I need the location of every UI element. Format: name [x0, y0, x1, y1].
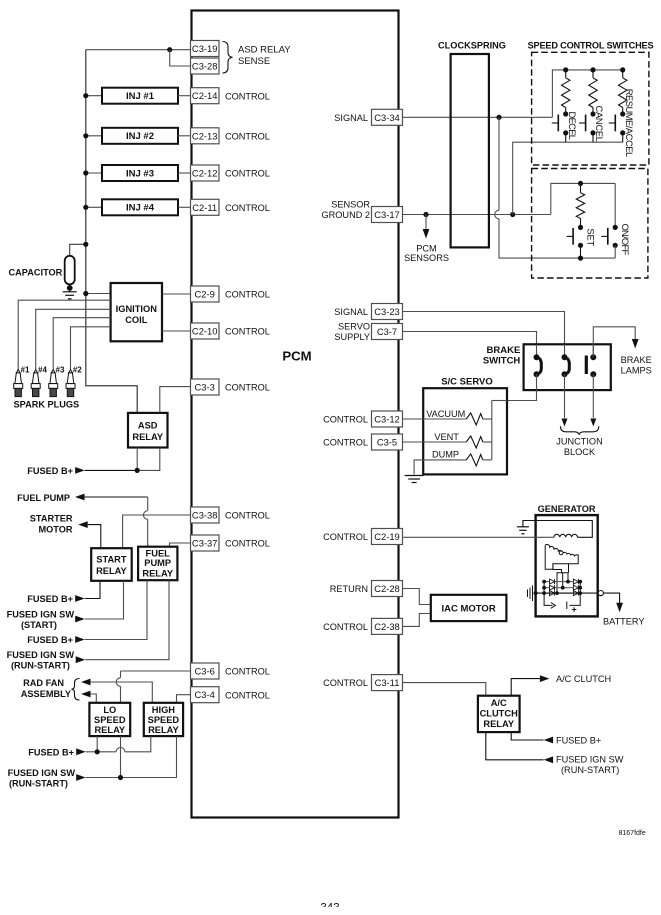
generator G1: [536, 515, 598, 616]
svg-text:FUSED B+: FUSED B+: [28, 747, 74, 757]
arrow: battery: [616, 603, 623, 613]
arrow: starter motor output: [78, 521, 88, 528]
field coil: [554, 534, 578, 537]
resistor CANCEL: [592, 70, 594, 78]
wire: C3-12 to vacuum valve: [403, 418, 467, 420]
pin C2-13: [191, 128, 220, 144]
svg-text:RELAY: RELAY: [483, 719, 514, 729]
svg-text:LO: LO: [103, 705, 116, 715]
arrow: fused B+ input: [75, 467, 85, 474]
lo speed relay K4: [89, 703, 130, 736]
arrow: fused ign sw a/c: [544, 756, 554, 763]
wire: to C3-28: [170, 50, 191, 66]
resistor DECEL: [565, 70, 567, 78]
svg-text:C3-12: C3-12: [374, 414, 400, 425]
brace: ASD relay sense: [223, 42, 233, 74]
svg-text:CONTROL: CONTROL: [323, 415, 368, 425]
wire+arrow: to PCM sensors: [425, 215, 427, 238]
pin C2-12: [191, 165, 220, 181]
switch CANCEL: [590, 111, 595, 116]
wire: contact3 bottom to junction block: [592, 374, 594, 418]
svg-text:C2-11: C2-11: [192, 202, 217, 213]
node: set top: [578, 181, 583, 186]
pin C2-9: [191, 286, 220, 302]
node: set bottom junction: [578, 256, 583, 261]
pin C3-23: [372, 304, 403, 320]
pin C3-4: [191, 687, 220, 703]
injector INJ #1: [102, 88, 178, 104]
wire: bus to capacitor: [70, 244, 86, 256]
node: bus junction INJ #1: [83, 93, 88, 98]
pin C2-28: [372, 581, 403, 597]
svg-text:FUSED IGN SW: FUSED IGN SW: [7, 609, 75, 619]
wire: contact2 to junction block: [564, 374, 566, 418]
wire: C3-38 to start relay: [123, 515, 191, 548]
svg-text:#3: #3: [56, 366, 65, 375]
battery terminal: [598, 591, 603, 596]
svg-text:FUSED IGN SW: FUSED IGN SW: [8, 768, 76, 778]
svg-text:RELAY: RELAY: [94, 725, 125, 735]
svg-text:GENERATOR: GENERATOR: [538, 504, 596, 514]
brace: junction block: [560, 426, 598, 435]
wire: bus to INJ #2: [86, 135, 102, 137]
node: bus junction INJ #2: [83, 133, 88, 138]
node: C3-28 tap junction: [167, 47, 172, 52]
arrow: brake lamps: [632, 339, 639, 349]
wire: fuel pump relay to fuel pump (hops C3-38 wire): [85, 496, 148, 498]
pin C3-34: [372, 109, 403, 125]
svg-text:C3-23: C3-23: [374, 306, 400, 317]
svg-text:SPEED: SPEED: [94, 715, 126, 725]
switch RESUME/ACCEL: [620, 111, 625, 116]
svg-text:BATTERY: BATTERY: [603, 617, 645, 627]
svg-text:C3-38: C3-38: [192, 510, 218, 521]
pin C2-11: [191, 199, 220, 215]
svg-text:S/C SERVO: S/C SERVO: [441, 376, 493, 387]
switch SET: [578, 225, 583, 230]
brake switch S1: [524, 344, 611, 390]
wire: coil to C2-10: [162, 330, 191, 332]
a/c clutch relay K6: [478, 696, 520, 732]
node: coil supply junction: [83, 291, 88, 296]
arrow: fused ign sw (run-start): [76, 656, 86, 663]
pin C3-5: [372, 434, 403, 450]
svg-text:CONTROL: CONTROL: [323, 438, 368, 448]
svg-text:LAMPS: LAMPS: [621, 365, 652, 375]
wire: C2-28 to IAC motor: [403, 589, 431, 605]
arrow: a/c clutch output: [540, 675, 550, 682]
svg-text:SWITCH: SWITCH: [483, 355, 521, 366]
svg-text:CONTROL: CONTROL: [225, 131, 270, 141]
svg-text:BLOCK: BLOCK: [564, 447, 596, 457]
node: fused B+ junction: [135, 468, 140, 473]
wire: to battery: [603, 593, 619, 603]
arrow: rad fan lo: [81, 691, 91, 698]
wire: ASD relay contact feed: [137, 448, 160, 471]
node: capacitor ground junction: [67, 285, 73, 291]
svg-text:HIGH: HIGH: [152, 705, 176, 715]
svg-text:C3-37: C3-37: [192, 538, 218, 549]
svg-text:8167fdfe: 8167fdfe: [619, 830, 646, 837]
svg-text:INJ #4: INJ #4: [126, 203, 155, 214]
svg-text:CONTROL: CONTROL: [323, 622, 368, 632]
svg-text:CONTROL: CONTROL: [323, 532, 368, 542]
wire: C3-34 signal through clockspring: [403, 116, 553, 118]
svg-text:SIGNAL: SIGNAL: [334, 113, 368, 123]
node: DECEL top: [563, 67, 568, 72]
capacitor C1: [65, 256, 75, 285]
svg-text:RAD FAN: RAD FAN: [23, 678, 64, 688]
svg-text:C2-12: C2-12: [192, 168, 218, 179]
svg-text:C3-3: C3-3: [195, 382, 215, 393]
wire: CANCEL to bottom bus: [592, 133, 594, 142]
pin C2-19: [372, 529, 403, 545]
generator internal bottom marks: [544, 593, 555, 608]
node: rad fan B+ junction: [95, 749, 100, 754]
svg-text:ASSEMBLY: ASSEMBLY: [21, 689, 71, 699]
wire: contact1 to s/c servo supply bus: [508, 374, 537, 400]
svg-text:CONTROL: CONTROL: [225, 690, 270, 700]
svg-text:(RUN-START): (RUN-START): [9, 778, 68, 788]
wire: fuel pump relay ign sw: [85, 580, 169, 660]
start relay K2: [91, 548, 132, 581]
wire: ASD relay to C3-3: [160, 387, 191, 413]
svg-text:RESUME/ACCEL: RESUME/ACCEL: [624, 89, 635, 158]
wire: INJ #3 to pin: [178, 172, 191, 174]
arrow: rad fan hi: [81, 679, 91, 686]
arrow: fused B+ rad fan: [76, 748, 86, 755]
svg-text:DECEL: DECEL: [567, 112, 578, 141]
svg-text:CANCEL: CANCEL: [594, 106, 605, 143]
dump valve: [414, 459, 466, 461]
ignition coil U1: [111, 283, 162, 341]
wire: field coil return loop to ground: [523, 521, 592, 538]
svg-text:FUSED B+: FUSED B+: [27, 466, 73, 476]
svg-text:A/C: A/C: [491, 698, 507, 708]
wire: C2-38 to IAC motor: [403, 614, 431, 627]
svg-text:RETURN: RETURN: [330, 584, 368, 594]
high speed relay K5: [144, 703, 183, 736]
svg-text:CONTROL: CONTROL: [225, 327, 270, 337]
svg-text:CONTROL: CONTROL: [225, 290, 270, 300]
arrow: fused ign sw (start): [75, 616, 85, 623]
pin C3-19: [191, 41, 220, 57]
svg-text:A/C CLUTCH: A/C CLUTCH: [556, 674, 611, 684]
svg-text:INJ #1: INJ #1: [126, 91, 155, 102]
svg-text:C3-4: C3-4: [195, 689, 215, 700]
svg-text:FUSED IGN SW: FUSED IGN SW: [556, 754, 624, 764]
pin C3-17: [372, 207, 403, 223]
svg-text:ON/OFF: ON/OFF: [620, 224, 631, 256]
wire: C3-19 sense wire: [86, 49, 191, 51]
svg-text:#2: #2: [73, 366, 82, 375]
svg-text:SPEED CONTROL SWITCHES: SPEED CONTROL SWITCHES: [528, 40, 654, 50]
svg-text:(RUN-START): (RUN-START): [11, 661, 70, 671]
svg-text:CLOCKSPRING: CLOCKSPRING: [438, 41, 506, 51]
svg-text:BRAKE: BRAKE: [621, 355, 652, 365]
servo internal supply bus: [492, 400, 507, 402]
svg-text:CONTROL: CONTROL: [225, 539, 270, 549]
svg-text:ASD RELAY: ASD RELAY: [238, 44, 291, 55]
svg-text:C2-19: C2-19: [374, 531, 400, 542]
svg-text:DUMP: DUMP: [432, 450, 459, 460]
fuel pump relay K3: [138, 547, 177, 581]
svg-text:INJ #3: INJ #3: [126, 168, 154, 179]
svg-text:(START): (START): [21, 620, 57, 630]
brake switch contact 3: [592, 344, 594, 357]
svg-text:PCM: PCM: [282, 349, 311, 364]
svg-text:FUEL PUMP: FUEL PUMP: [17, 493, 70, 503]
node: rad fan ign junction: [118, 775, 123, 780]
svg-text:CONTROL: CONTROL: [225, 511, 270, 521]
svg-text:SET: SET: [586, 228, 597, 246]
pin C3-37: [191, 535, 220, 551]
arrow: fuel pump output: [75, 494, 85, 501]
pin C2-38: [372, 618, 403, 634]
wire: start relay ign sw: [85, 581, 124, 619]
svg-text:#4: #4: [38, 366, 47, 375]
svg-text:FUSED IGN SW: FUSED IGN SW: [7, 650, 75, 660]
pin C2-14: [191, 88, 220, 104]
wire: INJ #4 to pin: [178, 206, 191, 208]
PCM module box: [192, 11, 399, 818]
node: bus junction INJ #4: [83, 205, 88, 210]
svg-text:C2-10: C2-10: [192, 326, 218, 337]
svg-text:SENSE: SENSE: [238, 56, 270, 67]
svg-text:C3-19: C3-19: [192, 43, 218, 54]
wire: coil to spark plug #3: [53, 318, 110, 370]
svg-text:FUSED B+: FUSED B+: [27, 635, 73, 645]
svg-text:SIGNAL: SIGNAL: [334, 307, 368, 317]
ASD relay K1: [128, 413, 168, 448]
wire: RESUME/ACCEL to bottom bus: [622, 133, 624, 142]
wire: on/off to bottom bus: [614, 245, 616, 258]
pin C3-28: [191, 58, 220, 74]
svg-text:CONTROL: CONTROL: [225, 169, 270, 179]
svg-text:BRAKE: BRAKE: [487, 345, 521, 356]
brake switch contact 2: [564, 344, 566, 357]
svg-text:RELAY: RELAY: [142, 569, 173, 579]
spark plug #2: [66, 370, 75, 397]
wire: start relay fused B+: [85, 581, 100, 599]
arrow: fused B+ fp relay: [75, 636, 85, 643]
svg-text:C2-14: C2-14: [192, 90, 218, 101]
wire: C3-5 to vent valve: [403, 441, 467, 443]
ground: s/c servo: [405, 476, 424, 483]
injector INJ #3: [102, 165, 178, 181]
svg-text:+: +: [572, 605, 577, 615]
IAC motor M1: [431, 595, 507, 621]
svg-text:SERVO: SERVO: [338, 322, 370, 332]
brake switch contact 1: [536, 344, 538, 357]
wire: coil to spark plug #2: [71, 327, 111, 370]
svg-text:SPEED: SPEED: [148, 715, 180, 725]
wire: coil to spark plug #1: [18, 300, 110, 370]
wire: C3-23 to brake switch contact 2: [403, 312, 565, 345]
wire: C3-11 to a/c clutch relay: [403, 683, 486, 696]
svg-text:START: START: [96, 555, 127, 565]
wire: high speed relay to rad fan: [91, 682, 153, 703]
switch ON/OFF: [614, 183, 616, 227]
svg-text:FUSED B+: FUSED B+: [556, 736, 601, 746]
svg-text:CLUTCH: CLUTCH: [480, 709, 518, 719]
svg-text:#1: #1: [21, 366, 30, 375]
generator output row: [536, 592, 598, 594]
wire: coil to spark plug #4: [36, 309, 111, 370]
dashed box: upper speed control switches: [532, 52, 649, 165]
spark plug #4: [31, 370, 40, 397]
pin C2-10: [191, 323, 220, 339]
svg-text:(RUN-START): (RUN-START): [561, 765, 619, 775]
pin C3-7: [372, 324, 403, 340]
wire: bus to ignition coil supply: [86, 293, 111, 295]
svg-text:C3-7: C3-7: [377, 326, 397, 337]
stator windings: [545, 545, 578, 569]
wire: relay fused ign sw: [486, 732, 544, 760]
wire: fused B+ rad fan relays (hops lo relay wire): [96, 736, 98, 752]
spark plug #3: [49, 370, 58, 397]
ground: generator field: [517, 527, 529, 534]
svg-text:SPARK PLUGS: SPARK PLUGS: [14, 400, 80, 410]
wire: fuel pump relay fused B+: [85, 580, 147, 639]
svg-text:C2-9: C2-9: [195, 289, 215, 300]
wire: start relay to starter motor: [88, 525, 101, 549]
svg-text:INJ #2: INJ #2: [126, 131, 154, 142]
wire: contact3 top to brake lamps: [593, 327, 635, 357]
pin C3-3: [191, 379, 220, 395]
svg-text:MOTOR: MOTOR: [38, 525, 72, 535]
node: capacitor tap: [83, 242, 88, 247]
svg-text:C2-28: C2-28: [374, 583, 400, 594]
wire: DECEL to bottom bus: [565, 133, 567, 142]
wire: bus to INJ #1: [86, 95, 102, 97]
svg-text:GROUND 2: GROUND 2: [322, 210, 371, 220]
svg-text:C3-28: C3-28: [192, 61, 218, 72]
arrow: fused B+ start relay: [75, 595, 85, 602]
wire: C3-17 sensor ground 2: [403, 214, 551, 216]
pin C3-12: [372, 411, 403, 427]
wire: C3-4 to high speed relay: [177, 695, 191, 703]
resistor RESUME/ACCEL: [622, 70, 624, 78]
svg-text:SENSORS: SENSORS: [404, 253, 449, 263]
pin C3-11: [372, 675, 403, 691]
wire: ASD relay output bus (left vertical): [86, 50, 137, 413]
wire: coil to C2-9: [162, 293, 191, 295]
svg-text:SENSOR: SENSOR: [331, 200, 370, 210]
rectifier bridge: [544, 582, 580, 594]
svg-text:CONTROL: CONTROL: [225, 383, 270, 393]
svg-text:C3-5: C3-5: [377, 437, 397, 448]
injector INJ #4: [102, 199, 178, 215]
svg-text:FUEL: FUEL: [146, 549, 171, 559]
wire: C2-19 to field coil: [403, 536, 554, 538]
svg-text:CONTROL: CONTROL: [225, 203, 270, 213]
svg-text:FUSED B+: FUSED B+: [27, 594, 73, 604]
switch DECEL: [563, 111, 568, 116]
svg-text:STARTER: STARTER: [30, 514, 73, 524]
pin C3-38: [191, 507, 220, 523]
svg-text:CONTROL: CONTROL: [225, 91, 270, 101]
chassis ground marks: [528, 586, 533, 602]
svg-text:CONTROL: CONTROL: [225, 667, 270, 677]
svg-text:C2-38: C2-38: [374, 621, 400, 632]
wire: lo speed relay to rad fan: [91, 694, 97, 703]
svg-text:JUNCTION: JUNCTION: [556, 437, 602, 447]
wire: INJ #1 to pin: [178, 95, 191, 97]
s/c servo box: [423, 388, 507, 474]
node: ground2-to-switch junction: [510, 212, 515, 217]
wire: set to bottom bus: [580, 245, 582, 258]
spark plug #1: [14, 370, 23, 397]
wire: ground2 to set/onoff top bus: [551, 183, 615, 214]
wire: C3-6 to lo speed relay (hops rad fan wire): [121, 670, 191, 672]
wire: fused ign sw rad fan relays: [120, 736, 122, 777]
pin C3-6: [191, 663, 220, 679]
wire: ground2 up to decel/cancel/resume bus: [513, 142, 623, 214]
wire: capacitor to ground: [69, 284, 71, 291]
wire: relay to a/c clutch: [511, 679, 540, 696]
svg-text:SUPPLY: SUPPLY: [334, 332, 370, 342]
svg-text:C3-34: C3-34: [374, 112, 400, 123]
svg-text:C3-6: C3-6: [195, 666, 215, 677]
svg-text:RELAY: RELAY: [96, 566, 127, 576]
svg-text:CAPACITOR: CAPACITOR: [9, 268, 63, 278]
dashed box: lower speed control switches: [532, 169, 648, 279]
arrow: fused B+ a/c: [544, 737, 554, 744]
ground: capacitor: [63, 292, 77, 299]
svg-text:RELAY: RELAY: [132, 432, 163, 442]
arrow: fused ign sw rad fan: [76, 774, 86, 781]
wire: fused B+ to ASD: [85, 469, 138, 471]
brace: rad fan: [72, 679, 80, 701]
svg-text:C3-17: C3-17: [374, 209, 400, 220]
svg-text:IGNITION: IGNITION: [116, 304, 158, 314]
svg-text:PUMP: PUMP: [144, 558, 171, 568]
wire: bus to INJ #3: [86, 172, 102, 174]
wire: signal branch down to set/onoff bus (hops ground2 wire): [498, 117, 500, 210]
resistor SET: [580, 183, 582, 192]
node: CANCEL top: [590, 67, 595, 72]
node: signal branch: [496, 115, 501, 120]
stator tee: [553, 564, 569, 593]
svg-text:ASD: ASD: [138, 421, 158, 431]
clockspring: [451, 54, 489, 247]
svg-text:CONTROL: CONTROL: [323, 678, 368, 688]
wire: C3-37 to fuel pump relay: [170, 543, 191, 547]
wire: signal to resistor top bus: [552, 70, 622, 117]
svg-text:C3-11: C3-11: [375, 677, 400, 688]
node: RESUME/ACCEL top: [620, 67, 625, 72]
wire: bus to INJ #4: [86, 206, 102, 208]
wire: relay fused B+: [511, 732, 543, 740]
node: bus junction INJ #3: [83, 170, 88, 175]
injector INJ #2: [102, 128, 178, 144]
svg-text:VACUUM: VACUUM: [426, 409, 465, 419]
wire: INJ #2 to pin: [178, 135, 191, 137]
svg-text:COIL: COIL: [125, 315, 148, 325]
node: pcm sensors tap: [423, 212, 428, 217]
svg-text:VENT: VENT: [434, 432, 459, 442]
svg-text:C2-13: C2-13: [192, 130, 218, 141]
svg-text:RELAY: RELAY: [148, 725, 179, 735]
svg-text:IAC MOTOR: IAC MOTOR: [442, 604, 496, 615]
wire: C3-7 servo supply to brake switch contact 1: [403, 332, 537, 345]
wire: ASD relay coil feed: [136, 448, 138, 471]
wire: dump to ground: [413, 460, 415, 475]
